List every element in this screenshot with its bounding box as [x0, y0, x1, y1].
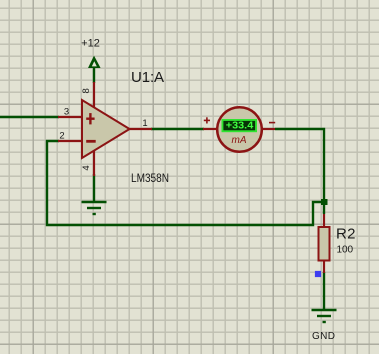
wire: input net to pin 3 — [0, 116, 59, 118]
origin marker (blue square) — [315, 271, 321, 277]
svg-text:1: 1 — [142, 118, 147, 129]
ammeter right pin stub — [261, 128, 275, 130]
wire: op-amp output to meter — [151, 128, 204, 130]
svg-text:R2: R2 — [336, 226, 356, 243]
svg-text:+33.4: +33.4 — [226, 120, 254, 131]
ground symbol (GND) — [312, 310, 337, 322]
ammeter body — [217, 107, 262, 152]
svg-text:LM358N: LM358N — [131, 171, 169, 185]
ammeter left pin stub — [203, 128, 218, 130]
svg-text:U1:A: U1:A — [131, 69, 164, 86]
svg-text:2: 2 — [59, 131, 64, 142]
node junction at R2 top — [321, 199, 328, 205]
op-amp U1 pin 1 output stub — [129, 128, 152, 130]
svg-text:8: 8 — [81, 88, 92, 93]
svg-text:3: 3 — [64, 107, 69, 118]
ammeter polarity - — [269, 122, 275, 124]
resistor R2 top pin stub — [323, 214, 325, 228]
resistor R2 bottom pin stub — [323, 259, 325, 273]
svg-text:100: 100 — [337, 245, 354, 256]
ammeter polarity + — [204, 117, 210, 123]
power symbol +12 arrow — [88, 56, 101, 68]
resistor R2 body — [319, 227, 330, 261]
op-amp U1 pin 8 stub — [93, 82, 95, 108]
op-amp U1:A body — [82, 100, 130, 158]
op-amp U1 pin 3 stub — [58, 116, 83, 118]
op-amp U1 pin 4 stub — [93, 150, 95, 176]
op-amp U1 pin 2 stub — [58, 140, 83, 142]
svg-text:mA: mA — [232, 135, 247, 146]
wire: feedback from pin 2 — [47, 141, 324, 225]
svg-text:GND: GND — [312, 331, 335, 342]
wire: meter to R2 top — [275, 129, 324, 214]
wire: pin 4 to ground — [93, 174, 95, 201]
svg-text:4: 4 — [81, 165, 92, 170]
ground symbol (op-amp) — [82, 202, 107, 214]
wire: R2 bottom to ground — [323, 272, 325, 310]
svg-text:+12: +12 — [81, 38, 100, 50]
wire: +12 supply to pin 8 — [93, 66, 95, 83]
